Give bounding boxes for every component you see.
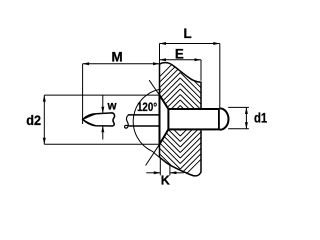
mandrel stem <box>128 115 159 126</box>
mandrel dome head <box>220 108 229 129</box>
svg-text:w: w <box>107 99 118 112</box>
workpiece block outline lower <box>160 130 202 176</box>
dimension M <box>83 50 160 124</box>
rivet countersunk head <box>160 95 169 144</box>
dimension E <box>160 47 202 81</box>
dimension L <box>160 26 220 108</box>
svg-text:K: K <box>161 173 170 187</box>
mandrel tip lower facet <box>83 120 96 126</box>
svg-text:d1: d1 <box>254 111 268 126</box>
svg-text:E: E <box>175 47 184 62</box>
cone lower extension line <box>146 144 160 165</box>
workpiece block outline upper <box>160 63 202 109</box>
dimension K <box>146 158 183 187</box>
mandrel tip upper facet <box>83 114 97 120</box>
svg-text:M: M <box>112 50 123 65</box>
dimension d1 <box>228 107 267 128</box>
svg-text:120°: 120° <box>137 100 157 114</box>
workpiece block lower hatch fill <box>134 79 226 180</box>
mandrel stem break loop <box>125 115 130 128</box>
svg-text:d2: d2 <box>26 113 41 128</box>
cone upper extension line <box>149 80 159 95</box>
mandrel tip piece <box>83 113 115 126</box>
rivet body <box>168 109 219 129</box>
dimension d2 <box>26 95 159 144</box>
120deg angle arc <box>133 89 161 157</box>
dimension W <box>101 95 117 139</box>
workpiece block upper hatch fill <box>134 56 226 157</box>
svg-text:L: L <box>184 26 192 41</box>
